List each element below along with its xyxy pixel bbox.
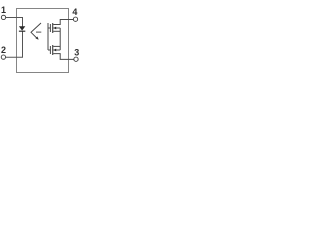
svg-text:3: 3 (74, 48, 79, 58)
pin 4 terminal (73, 17, 77, 21)
wire pin2 to LED cathode (6, 31, 23, 57)
LED D1 cathode bar (19, 30, 25, 32)
MOSFET Q2 channel (52, 45, 54, 55)
gate stub Q1 (48, 27, 50, 29)
pin 1 terminal (1, 15, 5, 19)
light emission zigzag arrow (31, 23, 41, 39)
MOSFET Q1 channel (52, 23, 54, 33)
MOSFET Q2 gate plate (49, 46, 51, 54)
MOSFET Q2 body arrow (53, 49, 60, 51)
pin 3 terminal (74, 57, 78, 61)
MOSFET Q1 source stub (53, 30, 60, 32)
source-body tie line (59, 28, 61, 50)
wire pin1 to LED anode (6, 18, 23, 27)
MOSFET Q2 drain to pin 3 (53, 54, 73, 60)
MOSFET Q1 body arrow (53, 27, 60, 29)
svg-text:1: 1 (1, 5, 6, 15)
svg-text:4: 4 (72, 7, 77, 17)
LED D1 triangle (19, 26, 25, 30)
gate stub Q2 (48, 49, 50, 51)
pin 2 terminal (1, 55, 5, 59)
MOSFET Q2 source stub (53, 45, 60, 47)
MOSFET Q1 drain to pin 4 (53, 20, 73, 25)
MOSFET Q1 gate plate (49, 24, 51, 32)
component outline box (17, 9, 69, 73)
common gate line (47, 23, 49, 50)
light arrow dash (36, 31, 41, 33)
svg-text:2: 2 (1, 45, 6, 55)
